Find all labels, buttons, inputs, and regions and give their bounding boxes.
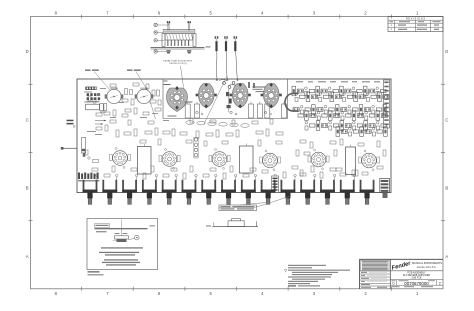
electrolytic can capacitor C11 [240,144,254,174]
wire W1 (flying lead to power section) [215,36,219,81]
component side / solder side labels with PCB line [95,224,156,233]
screen resistor R4 (power section) [257,102,262,119]
component value labels (left section) [84,88,169,135]
mounting screws (2) [167,21,191,31]
filament wire daisy chain [186,121,249,128]
svg-text:PROJECTION (7): PROJECTION (7) [169,63,187,65]
standoff eyelets above pot row [96,174,356,180]
ribbon connector (between pots) [272,176,279,193]
svg-text:R E V I S I O N S: R E V I S I O N S [406,18,426,21]
diode pad cluster (top-left) [87,93,101,102]
misc small resistors/caps (top-left cluster) [88,83,161,117]
svg-text:3: 3 [313,10,316,15]
wire terminal pair (left edge) [67,120,76,128]
svg-text:Fender: Fender [391,261,412,272]
screen resistor R1 (power section) [185,102,190,119]
connector J1 (top-left, striped) [85,87,96,90]
DETAIL B caption [88,271,104,275]
filament wire terminals (middle column) [223,82,235,112]
svg-text:4: 4 [261,10,264,15]
power tube socket V3 (octal, with shield plate) [164,79,193,117]
callout balloons 1-4 with leaders (socket mounting detail) [154,22,169,53]
svg-text:5: 5 [210,291,213,296]
preamp tube socket V1 [105,87,124,104]
svg-text:A: A [445,254,448,259]
preamp tube socket V10 (9-pin) [260,150,281,171]
polarity arrows (left) [95,120,106,125]
DETAIL A side view (shield on PCB) [206,219,258,227]
edge pads cluster (bottom-left corner of board) [78,173,100,182]
svg-text:B: B [26,186,29,191]
svg-text:A: A [26,254,29,259]
svg-text:D: D [26,49,29,54]
component reference labels (board top edge, right) [296,81,380,82]
mounting detail caption with leader [163,59,193,87]
screen resistor R3 (power section) [249,102,254,119]
power tube socket V4 (octal) [196,83,217,109]
screen resistor R2 (power section) [195,102,200,119]
svg-text:5: 5 [210,10,213,15]
power tube section boundary [163,79,288,119]
resistor/capacitor row C2 (right section) [336,127,387,137]
svg-text:1: 1 [391,24,393,27]
preamp tube socket V8 (9-pin) [159,149,180,170]
resistor/capacitor row A (right section) [292,86,386,96]
off-board wire stub (left edge) [61,147,85,157]
electrolytic can capacitor C12 [346,145,356,175]
title block outline [360,259,444,289]
potentiometer P11 [281,180,296,205]
potentiometer P4 [142,180,157,205]
proprietary notice box [361,260,389,271]
company name and address [412,262,442,269]
svg-text:MUSICAL INSTRUMENTS: MUSICAL INSTRUMENTS [412,262,442,265]
eyelets in power section [196,111,272,115]
potentiometer P15 [360,180,375,205]
wire W3 (flying lead to power section) [234,36,239,81]
preamp tube socket V7 (9-pin) [110,148,131,169]
drawing title [390,271,443,280]
preamp tube socket V9 (9-pin) [209,149,230,170]
potentiometer P14 [340,180,355,205]
jumper wire loop (horseshoe) [285,94,299,112]
svg-text:D: D [445,49,448,54]
svg-text:C: C [445,117,448,122]
leader lines to pots [240,196,290,207]
svg-text:B: B [445,186,448,191]
screen resistor R6 (power section) [282,102,287,119]
9-pin socket mounting cross-section [113,220,129,243]
potentiometer P10 [261,180,276,205]
power tube socket V5 (octal) [230,83,251,109]
sheet inner border frame [31,17,444,289]
screen resistor R5 (power section) [265,102,270,119]
resistor/capacitor row C (right section) [305,121,386,131]
scale / sheet row [390,285,443,287]
wire W2 (flying lead to power section) [224,36,228,81]
small parts above pot row [92,166,368,179]
svg-text:8: 8 [55,291,58,296]
potentiometer P5 [162,180,177,205]
callout balloon (detail B) [129,235,140,240]
potentiometer P7 [201,180,216,205]
svg-text:DETAIL TUBE SOCKET MTG.: DETAIL TUBE SOCKET MTG. [163,59,193,62]
electrolytic can capacitor C10 [138,144,152,174]
eyelet strip (between sockets) [194,138,198,159]
svg-text:2: 2 [364,10,367,15]
svg-text:4: 4 [261,291,264,296]
power connector (bottom-right board edge) [380,179,390,199]
potentiometer P12 [300,180,315,205]
parts left of socket V7 [85,150,99,163]
tube socket body exploded view [162,30,196,47]
DETAIL A reference text box [219,205,257,211]
svg-text:2: 2 [391,28,393,31]
DETAIL B enclosure box [87,219,158,270]
title block left rows (drawn/date/checked) [360,271,391,288]
preamp tube socket V2 [135,87,154,104]
svg-text:3: 3 [313,291,316,296]
PCB cross-section line with P.C.B. label [151,46,211,49]
power tube socket V6 (octal) [261,83,282,109]
drawing notes list [284,265,350,287]
fuse F1 (left edge) [82,138,86,154]
main PCB outline [77,79,391,193]
svg-text:2: 2 [364,291,367,296]
capacitors C1 C2 (top-left) [100,104,107,113]
potentiometer P8 [221,180,236,205]
SEE DETAIL label (right) with leader [127,70,156,120]
svg-text:1: 1 [416,291,419,296]
svg-text:7: 7 [106,291,109,296]
svg-text:8: 8 [55,10,58,15]
edge connector (right, vertical) [384,80,390,128]
nuts and washers under PCB (2) [166,50,191,53]
svg-text:PCB ASSEMBLY: PCB ASSEMBLY [407,272,426,275]
logo script [391,261,412,272]
preamp tube socket V12 (9-pin) [359,150,380,171]
potentiometer P2 [102,180,117,205]
potentiometer P13 [320,180,335,205]
revision table [388,17,443,32]
drawing number strip [390,280,443,286]
resistor/capacitor row B2 (right section) [298,111,387,121]
leader to filament wiring [204,76,227,124]
potentiometer P3 [122,180,137,205]
resistor/capacitor row B (right section) [293,105,387,115]
potentiometer P6 [182,180,197,205]
bias feed parts near wire entries [219,80,255,89]
resistor/capacitor row A2 (right section) [295,92,389,102]
misc components (right mid) [292,139,386,176]
misc components mid-band [96,118,283,146]
potentiometer P9 [241,180,256,205]
relay K1 (top-left) [86,104,100,110]
svg-text:6: 6 [158,291,161,296]
potentiometer P1 [83,180,98,205]
svg-text:7: 7 [106,10,109,15]
svg-text:6: 6 [158,10,161,15]
detail B note text lines [99,247,143,265]
SEE DETAIL label (left) with leader [85,70,111,91]
TILT warning text (power section) [253,87,266,93]
svg-text:Corona, CA U.S.A.: Corona, CA U.S.A. [417,266,437,269]
svg-text:1: 1 [416,10,419,15]
svg-text:C: C [26,117,29,122]
preamp tube socket V11 (9-pin) [308,149,329,170]
